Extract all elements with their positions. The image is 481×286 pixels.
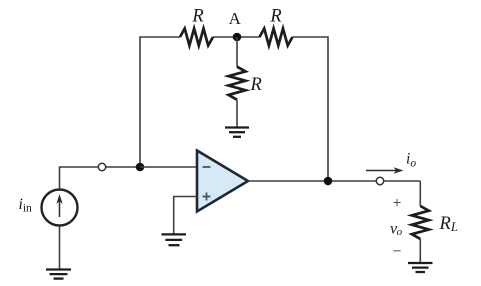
wire RL to ground — [419, 239, 421, 263]
op-amp U1 — [197, 151, 248, 212]
wire R3 to ground — [236, 100, 238, 128]
label i_o — [406, 151, 416, 170]
svg-text:+: + — [393, 195, 402, 212]
node A junction dot — [233, 33, 242, 42]
svg-text:R: R — [191, 7, 203, 27]
ground G4 — [408, 263, 433, 272]
label v_o — [390, 221, 403, 239]
wire source to input node — [60, 167, 141, 190]
input terminal open circle — [98, 163, 105, 170]
wire R2 to right rail — [293, 37, 329, 181]
wire R1 to node A — [213, 36, 260, 38]
wire inverting input — [140, 166, 197, 168]
label RL — [439, 214, 459, 234]
ground G3 — [162, 234, 187, 245]
wire op-amp output — [248, 180, 420, 182]
ground G1 — [225, 128, 249, 137]
label R2 value R — [269, 7, 281, 27]
svg-text:−: − — [393, 243, 402, 260]
label R1 value R — [191, 7, 203, 27]
current arrow i_o — [366, 167, 404, 173]
svg-text:R: R — [250, 75, 262, 95]
svg-text:R: R — [269, 7, 281, 27]
input junction dot — [136, 163, 145, 172]
wire top feedback rail — [140, 37, 180, 167]
wire output to RL — [419, 181, 421, 206]
label i_in — [19, 196, 33, 215]
label vo minus — [393, 243, 402, 260]
resistor R3 — [229, 67, 246, 100]
wire non-inverting input to ground — [174, 197, 197, 235]
current source Iin — [42, 190, 78, 226]
wire node A down to R3 — [236, 37, 238, 67]
svg-text:A: A — [229, 9, 242, 28]
resistor RL — [412, 206, 429, 239]
resistor R2 — [260, 29, 293, 46]
label node A — [229, 9, 242, 28]
resistor R1 — [180, 29, 213, 46]
label vo plus — [393, 195, 402, 212]
ground G2 — [46, 270, 71, 279]
label R3 value R — [250, 75, 262, 95]
output junction dot — [324, 177, 333, 186]
wire source to ground — [59, 226, 61, 270]
output terminal open circle — [376, 177, 383, 184]
